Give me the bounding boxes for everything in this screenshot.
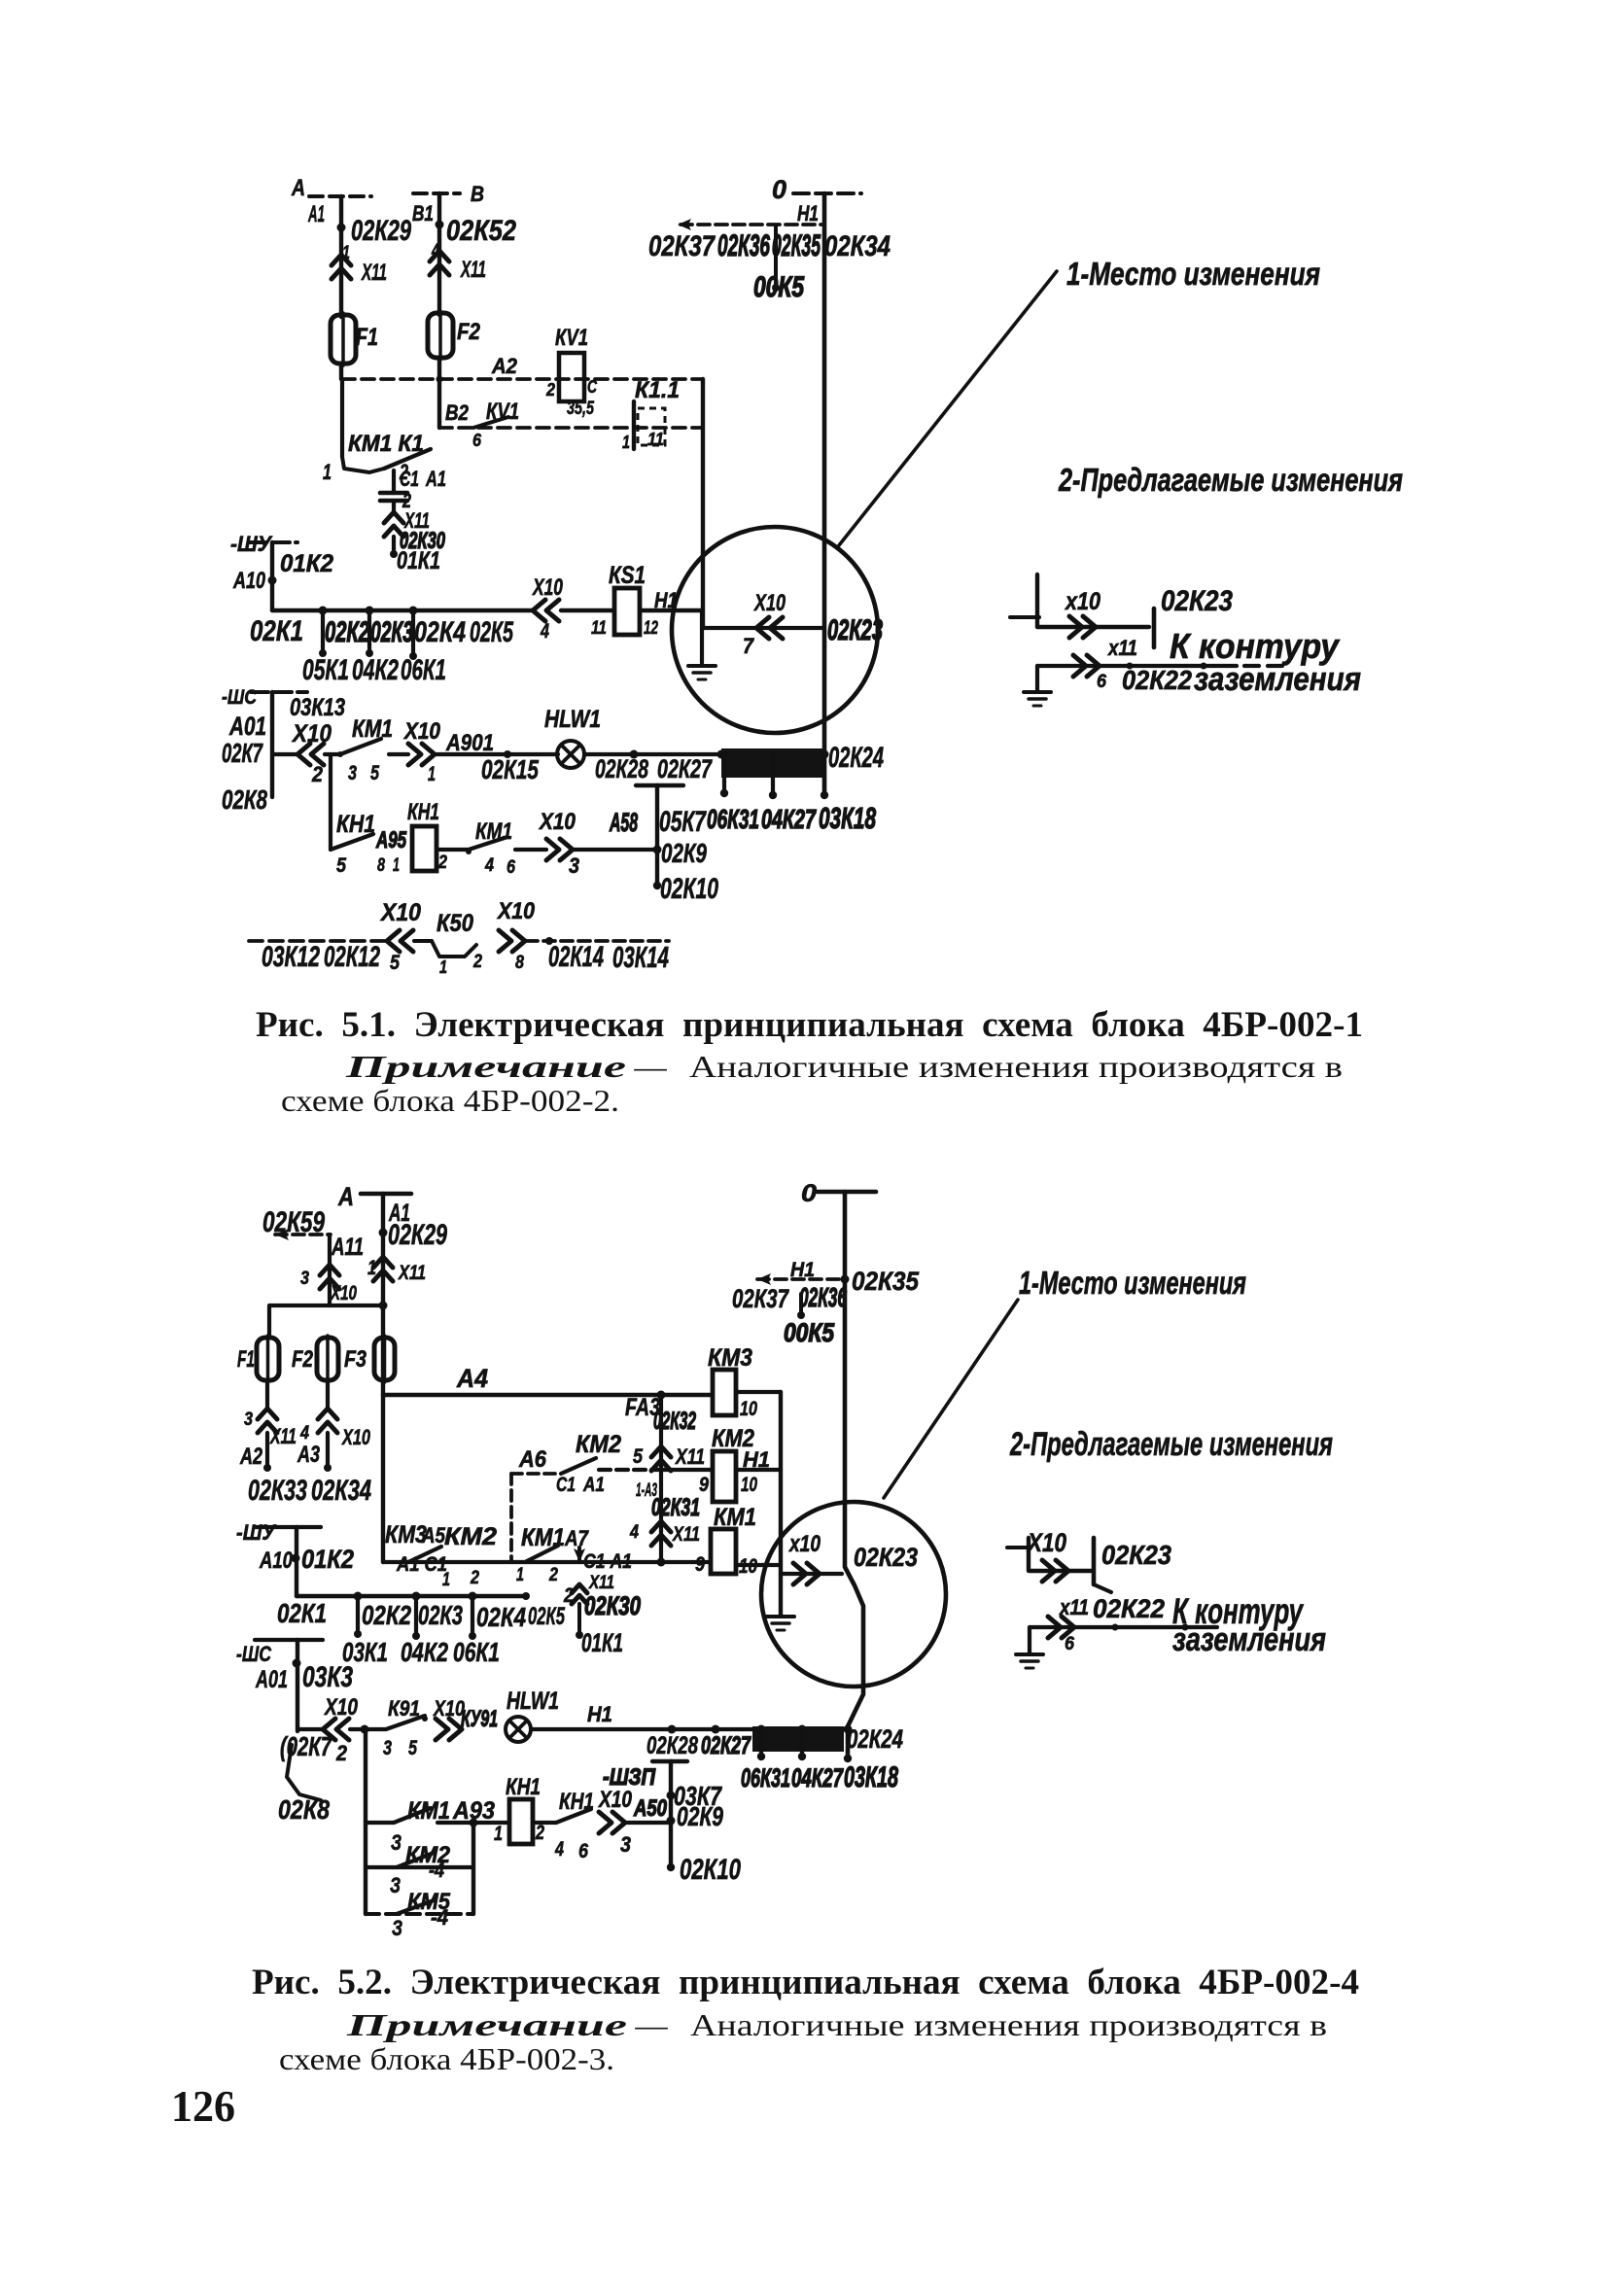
tap 04K2 (412, 1592, 421, 1641)
net label 06K1 (401, 655, 446, 686)
caption 5.1 note line (344, 1049, 1343, 1084)
net label 02K7 (222, 738, 263, 768)
change-mark circle (fig5.1) (672, 527, 878, 733)
contact K50 (432, 941, 476, 957)
pin 2 (branch) (563, 1584, 574, 1607)
relay label KH1 (5.2) (506, 1775, 541, 1800)
svg-text:8: 8 (515, 952, 524, 973)
wire row2 right (640, 609, 702, 612)
wire phase B drop (437, 193, 441, 315)
svg-text:02К23: 02К23 (827, 615, 883, 646)
contact KM1 (bottom) (394, 1808, 431, 1823)
svg-text:02К2: 02К2 (325, 617, 369, 648)
svg-text:1-Место изменения: 1-Место изменения (1066, 257, 1320, 293)
junction A1 (337, 224, 346, 232)
svg-text:Примечание — Аналогичные измен: Примечание — Аналогичные изменения произ… (344, 1049, 1343, 1084)
wire branch tail (576, 1604, 583, 1639)
svg-text:F1: F1 (356, 324, 378, 351)
net label 02K5 (5.2) (528, 1603, 566, 1630)
contact label KM5 (407, 1890, 451, 1915)
svg-text:КН1: КН1 (407, 800, 439, 825)
note 1-Mesto izmeneniya (fig5.2) (1019, 1266, 1246, 1302)
svg-text:А901: А901 (445, 731, 494, 756)
svg-text:02К15: 02К15 (481, 754, 539, 784)
net label 02K23 (circle) (827, 615, 883, 646)
pin 8 (remark) (515, 952, 524, 973)
wire A6 dashed (511, 1472, 561, 1476)
svg-text:2: 2 (470, 1567, 479, 1588)
bus tick -ShS (5.2) (255, 1638, 323, 1642)
fuse F1 (331, 313, 356, 365)
svg-text:КМ1: КМ1 (521, 1524, 565, 1551)
pin 4 (row2) (540, 620, 549, 643)
arrow C1 branch (574, 1548, 585, 1562)
svg-text:2: 2 (545, 380, 555, 400)
label C1 (A6) (556, 1474, 576, 1496)
svg-text:схеме блока 4БР-002-3.: схеме блока 4БР-002-3. (279, 2041, 614, 2076)
wire F1 column lower (340, 379, 344, 457)
pin 3 (KM1) (348, 762, 357, 784)
wire F1 tail (5.2) (263, 1433, 271, 1472)
wire X10 inside circle (5.2) (781, 1572, 842, 1576)
wire A6 column dashed (509, 1474, 513, 1562)
svg-text:А01: А01 (228, 712, 266, 741)
svg-text:4: 4 (540, 620, 549, 643)
svg-text:5: 5 (408, 1737, 417, 1759)
wire right loop vertical (701, 379, 705, 628)
pin 2 (KV1) (545, 380, 555, 400)
svg-text:К контуру: К контуру (1170, 626, 1341, 666)
svg-text:А10: А10 (259, 1548, 293, 1574)
pin y (K1.1) (622, 433, 630, 452)
wire lamp row start (272, 752, 297, 756)
svg-text:02К36: 02К36 (799, 1282, 847, 1312)
pin 1 (lamp row) (428, 763, 436, 785)
svg-text:2: 2 (437, 852, 447, 873)
relay label KH1 (407, 800, 439, 825)
svg-text:Х11: Х11 (460, 258, 486, 283)
node label B2 (445, 400, 470, 425)
svg-text:КУ91: КУ91 (461, 1707, 498, 1732)
pin 3 (KM2 bottom) (390, 1873, 401, 1897)
svg-text:06К1: 06К1 (453, 1637, 500, 1667)
relay coil KH1 (412, 826, 437, 871)
svg-text:КМ2: КМ2 (576, 1431, 621, 1458)
sketch2 connector X10 plug (1042, 1560, 1068, 1582)
svg-text:КМ1 К1: КМ1 К1 (348, 432, 424, 457)
svg-text:3: 3 (348, 762, 357, 784)
wire KH1 to KM1 contact (437, 848, 469, 852)
lamp HLW1 (557, 741, 584, 768)
bus tick -ShS (251, 690, 307, 694)
contact KM1.1 blade (384, 449, 431, 469)
wire KM1 to X10 (389, 752, 408, 756)
node label A2 (5.2) (239, 1444, 262, 1470)
pointer line to note 1 (5.2) (884, 1300, 1018, 1498)
svg-text:З: З (392, 1916, 402, 1940)
node label A01 (228, 712, 266, 741)
pin 6 (472, 431, 482, 450)
wire below F2 (5.2) (326, 1380, 330, 1409)
connector X11 (branch) (572, 1584, 587, 1604)
net label 02K29 (351, 216, 412, 247)
svg-text:02К36: 02К36 (717, 227, 770, 262)
label A5 (421, 1523, 445, 1548)
net label 05K1 (302, 655, 349, 686)
contact label KM2 (bottom) (405, 1843, 450, 1868)
svg-text:Х11: Х11 (398, 1262, 426, 1284)
svg-text:Рис. 5.1. Электрическая при: Рис. 5.1. Электрическая принципиальная с… (256, 1005, 1363, 1045)
wire F3 column down (381, 1395, 385, 1562)
connector X10 socket (circle) (756, 617, 783, 639)
connector X11 plug (FA3) (651, 1446, 671, 1471)
lamp label HLW1 (544, 706, 601, 733)
pin 8 (377, 854, 385, 876)
svg-text:02К32: 02К32 (653, 1408, 696, 1435)
page number 126 (171, 2081, 235, 2131)
pin 7 (743, 634, 754, 658)
bus tick -ShU (5.2) (255, 1525, 321, 1529)
svg-text:06К31: 06К31 (741, 1763, 790, 1792)
contact label K50 (437, 910, 473, 937)
net label 02K8 (222, 784, 267, 815)
wire KM2 row (bottom) (366, 1865, 473, 1869)
svg-text:С1: С1 (556, 1474, 576, 1496)
net label 01K2 (280, 550, 333, 577)
sketch1 stub tick (1010, 615, 1039, 619)
wire phase A vertical (5.2) (381, 1194, 385, 1395)
change-mark circle (fig5.2) (761, 1502, 946, 1687)
sketch1 wire X10 (1037, 625, 1149, 629)
svg-text:02К23: 02К23 (854, 1543, 918, 1572)
net label 02K10 (660, 874, 718, 905)
relay coil KM1 (5.2) (711, 1529, 736, 1574)
connector X10 plug (lamp 5.2) (436, 1719, 462, 1740)
svg-text:А1: А1 (425, 467, 446, 491)
sketch1 wire X11 row (1037, 663, 1283, 670)
svg-text:А6: А6 (518, 1447, 547, 1473)
pin 9 (KM1) (695, 1553, 705, 1576)
contact label KM1 (bottom) (407, 1797, 450, 1825)
svg-text:4: 4 (629, 1521, 639, 1543)
tap 03K1 (354, 1592, 363, 1639)
wire 02K37 dash (5.2) (757, 1273, 850, 1285)
wire -ShU vertical (270, 542, 274, 610)
svg-text:02К23: 02К23 (1101, 1540, 1171, 1570)
connector X11 plug (A) (332, 255, 351, 279)
net label 02K35 (dark) (772, 227, 821, 262)
overprint block 02K26 02K25 (5.2) (752, 1726, 844, 1752)
wire B2 dashed row (437, 376, 704, 429)
net label 01K1 (397, 547, 440, 574)
net label 02K23 (circle 5.2) (854, 1543, 918, 1572)
pin 4 hook (KM5) (431, 1905, 448, 1930)
net label 02K9 (5.2) (677, 1801, 723, 1831)
pin 11 (K1.1) (647, 430, 664, 449)
tap 06K31 (720, 754, 728, 797)
svg-text:Х10: Х10 (597, 1788, 632, 1813)
svg-text:3: 3 (383, 1737, 392, 1759)
svg-text:Х10: Х10 (496, 899, 535, 924)
svg-text:02К23: 02К23 (1161, 586, 1233, 617)
contact label K91 (388, 1696, 420, 1721)
caption 5.1 note line 2 (281, 1083, 619, 1118)
pin 1 (342, 242, 350, 263)
svg-text:F2: F2 (457, 320, 480, 345)
pin 2 (KH1 coil) (437, 852, 447, 873)
svg-text:03К18: 03К18 (844, 1762, 899, 1793)
contact K1.1 dashed frame (638, 408, 665, 445)
net label 01K1 (5.2) (581, 1628, 623, 1657)
sketch1 vertical (1035, 574, 1039, 627)
net label 02K12 (324, 942, 380, 973)
wire to X10 (row4) (515, 848, 546, 852)
connector label X10 (lamp 5.2 L) (323, 1695, 358, 1721)
contact label KM1 (row4) (475, 819, 512, 845)
svg-text:КS1: КS1 (609, 562, 646, 589)
svg-text:А7: А7 (564, 1526, 589, 1550)
contact KM5 (397, 1900, 434, 1914)
svg-text:Х10: Х10 (402, 719, 440, 745)
svg-text:С: С (587, 377, 598, 397)
svg-text:11: 11 (647, 430, 664, 449)
svg-text:х11: х11 (1059, 1595, 1089, 1619)
svg-text:4: 4 (554, 1838, 564, 1861)
wire A6 to column (599, 1468, 661, 1472)
svg-text:Х10: Х10 (752, 591, 786, 616)
ground (bracket) (767, 1617, 794, 1630)
connector label X10 (remark L) (379, 899, 421, 926)
svg-text:02К29: 02К29 (388, 1220, 448, 1251)
svg-text:02К3: 02К3 (370, 617, 413, 648)
net label 02K28 (595, 754, 648, 783)
bracket vertical (779, 1392, 783, 1615)
svg-text:К1.1: К1.1 (635, 378, 680, 403)
pin 3 (A11) (300, 1268, 309, 1289)
svg-text:02К24: 02К24 (828, 743, 884, 774)
wire A58 vertical (653, 785, 662, 889)
node label A11 (331, 1234, 364, 1261)
connector label X10 (A11) (330, 1282, 357, 1305)
contact label KV1 (row) (486, 400, 519, 425)
svg-text:В: В (471, 182, 484, 206)
svg-text:А: А (337, 1182, 354, 1211)
junction A01 (5.2) (293, 1659, 301, 1668)
pin 2 (lamp row) (311, 762, 323, 786)
svg-text:126: 126 (171, 2081, 235, 2131)
svg-text:А2: А2 (239, 1444, 262, 1470)
svg-text:4: 4 (299, 1422, 309, 1444)
relay label KM2 (coil) (712, 1425, 754, 1452)
value 35.5 (567, 398, 595, 419)
svg-text:-ШС: -ШС (236, 1642, 272, 1666)
tap 03K18 (821, 754, 828, 799)
pin 3 (bottom 5.2) (620, 1832, 632, 1857)
svg-text:2-Предлагаемые изменения: 2-Предлагаемые изменения (1009, 1426, 1333, 1463)
svg-text:03К3: 03К3 (302, 1662, 353, 1693)
pin 1 (row a) (442, 1569, 450, 1590)
net label 02K34 (824, 231, 891, 262)
net label 02K2 (dark) (325, 617, 369, 648)
svg-text:Н1: Н1 (797, 201, 819, 226)
tap 02K2 (319, 607, 328, 658)
fuse top bar (5.2) (269, 1302, 388, 1339)
net label 04K27 (dark) (761, 804, 817, 834)
wire KM2 left pin (661, 1468, 713, 1472)
wire below F1 (5.2) (265, 1380, 269, 1409)
wire remark mid (414, 939, 432, 943)
contact KM2 blade (row) (525, 1546, 558, 1562)
connector X10 plug (F2 5.2) (318, 1409, 337, 1433)
fuse F2 (5.2) (317, 1336, 338, 1382)
net label N1 (KS1) (654, 588, 678, 612)
svg-text:02К35: 02К35 (772, 227, 821, 262)
svg-text:1: 1 (442, 1569, 450, 1590)
net label 02K52 (446, 216, 516, 247)
svg-text:А4: А4 (456, 1364, 488, 1393)
net label 04K27 (5.2,dark) (791, 1763, 844, 1792)
pin 1 (KH1 coil) (393, 854, 400, 876)
net label 02K5 (470, 617, 514, 648)
sketch2 text K konturu (1172, 1590, 1304, 1631)
pin 3 (KM1 bottom) (391, 1830, 402, 1855)
contact label KH1 (row4) (336, 811, 375, 838)
wire phase A drop (339, 196, 343, 317)
contact label KH1 (contact 5.2) (559, 1790, 594, 1815)
svg-text:А2: А2 (491, 354, 518, 378)
net label 02K34 (5.2) (311, 1476, 371, 1507)
sketch2 connector X11 plug (1048, 1617, 1074, 1638)
fuse F3 (5.2) (374, 1336, 395, 1382)
svg-text:02К37: 02К37 (648, 231, 716, 262)
svg-text:8: 8 (377, 854, 385, 876)
phase label A (5.2) (337, 1182, 354, 1211)
svg-text:1: 1 (323, 460, 332, 484)
cap label C1 (400, 467, 419, 491)
svg-text:02К34: 02К34 (311, 1476, 371, 1507)
pin 4 (F2 5.2) (299, 1422, 309, 1444)
net label 01K2 (5.2) (301, 1545, 354, 1574)
note 2-Predlagaemye izmeneniya (fig5.1) (1058, 463, 1403, 499)
wire row2 left (272, 609, 533, 612)
svg-text:КН1: КН1 (559, 1790, 594, 1815)
node label A10 (232, 569, 265, 594)
pin 5 (FA3) (633, 1445, 643, 1468)
net label 02K8 (5.2) (278, 1794, 330, 1825)
svg-text:02К33: 02К33 (248, 1476, 307, 1507)
relay label KS1 (609, 562, 646, 589)
wire -ShS vertical (270, 692, 274, 797)
wire phase 0 vertical (5.2) (844, 1192, 864, 1762)
net label 02K30 (dark) (400, 529, 445, 554)
svg-text:Примечание — Аналогичные измен: Примечание — Аналогичные изменения произ… (345, 2007, 1327, 2042)
svg-text:Х10: Х10 (323, 1695, 358, 1721)
tap 04K27 (5.2) (798, 1729, 806, 1760)
svg-text:02К22: 02К22 (1093, 1594, 1165, 1623)
net label 03K18 (dark) (819, 802, 876, 835)
wire right rail (472, 1823, 475, 1914)
svg-text:3: 3 (569, 853, 580, 878)
svg-text:05К7: 05К7 (659, 807, 707, 838)
connector X10 plug (remark) (499, 930, 525, 952)
wire 0 tap dashed (678, 219, 824, 230)
svg-text:Х10: Х10 (538, 810, 576, 835)
connector label X11 (B) (460, 258, 486, 283)
bus bar ShZP (652, 1759, 687, 1763)
connector label X11 (branch) (588, 1572, 614, 1593)
phase label 0 (772, 175, 786, 204)
svg-text:10: 10 (741, 1474, 757, 1496)
contact label KM1 (row) (521, 1524, 565, 1551)
svg-text:35,5: 35,5 (567, 398, 595, 419)
lamp label HLW1 (5.2) (507, 1687, 559, 1715)
pin 4 (431, 240, 439, 261)
caption 5.1 title (256, 1005, 1363, 1045)
pin 2 (row a) (470, 1567, 479, 1588)
connector label X10 (lamp 5.2 R) (432, 1696, 465, 1721)
phase B bus bar (413, 191, 460, 195)
sketch1 pin 6 (1097, 671, 1106, 692)
wire 02K8 curve (287, 1745, 321, 1800)
contact KM2 (bottom) (397, 1853, 434, 1867)
sketch1 terminal bar (1152, 609, 1157, 647)
svg-text:6: 6 (578, 1840, 588, 1862)
connector label X11 (361, 261, 387, 286)
pin 3 (row4) (569, 853, 580, 878)
tap 06K1 (469, 1592, 477, 1641)
relay coil KH1 (5.2) (509, 1799, 533, 1844)
pin 2 (lamp 5.2) (335, 1741, 347, 1765)
svg-text:заземления: заземления (1172, 1621, 1326, 1658)
svg-text:Х10: Х10 (341, 1425, 371, 1449)
fuse label F2 (5.2) (292, 1347, 313, 1373)
svg-text:02К5: 02К5 (470, 617, 514, 648)
svg-text:6: 6 (507, 856, 515, 878)
fuse label F2 (457, 320, 480, 345)
connector X10 socket (lamp 5.2) (323, 1719, 349, 1740)
label A1 (A6) (582, 1474, 605, 1496)
contact KH1 (5.2) (556, 1809, 591, 1823)
svg-text:02К8: 02К8 (278, 1794, 330, 1825)
svg-text:2: 2 (535, 1822, 544, 1844)
relay label KM1 (coil) (714, 1504, 756, 1531)
net label 03K1 (342, 1637, 388, 1667)
bus label -ShU (5.2) (236, 1520, 277, 1545)
svg-text:Х11: Х11 (361, 261, 387, 286)
net label 06K1 (5.2) (453, 1637, 500, 1667)
phase A bus bar (309, 194, 371, 198)
net label A58 (609, 808, 638, 837)
contact label KM3 (row) (385, 1521, 427, 1548)
label FA3 (625, 1394, 660, 1421)
wire C1 to X11 (392, 501, 396, 512)
net label 02K7 (5.2) (280, 1731, 332, 1761)
net label 02K4 (414, 617, 466, 648)
tap 02K4 (409, 607, 418, 661)
phase label A (291, 176, 305, 201)
svg-text:01К2: 01К2 (280, 550, 333, 577)
bus bar A58 (636, 783, 683, 787)
svg-text:3: 3 (300, 1268, 309, 1289)
svg-text:02К10: 02К10 (660, 874, 718, 905)
svg-text:04К2: 04К2 (401, 1637, 448, 1667)
pin 5 (K91) (408, 1737, 417, 1759)
label A93 (452, 1797, 495, 1825)
wire A4 row (383, 1391, 713, 1400)
sketch2 elbow (1029, 1538, 1091, 1571)
svg-text:HLW1: HLW1 (544, 706, 601, 733)
wire remark dashes left (249, 939, 387, 943)
